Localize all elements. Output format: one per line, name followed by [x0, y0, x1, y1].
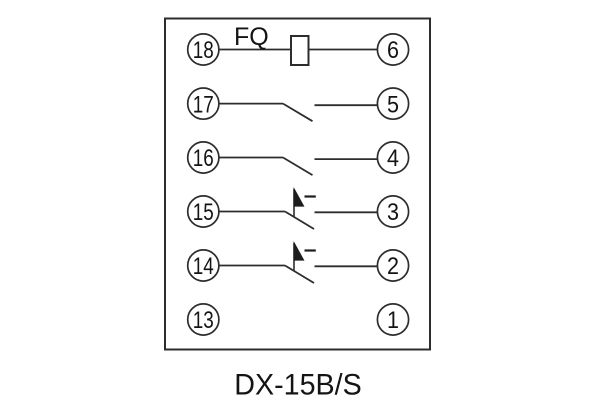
terminal 5	[377, 88, 408, 119]
svg-text:1: 1	[387, 307, 399, 334]
svg-text:17: 17	[193, 91, 214, 118]
wire coil FQ to 6	[309, 49, 378, 51]
terminal 14	[188, 250, 219, 281]
terminal 1	[377, 304, 408, 335]
terminal 15	[188, 196, 219, 227]
svg-text:2: 2	[387, 253, 399, 280]
terminal 3	[377, 196, 408, 227]
dash mark of contact 14-2	[305, 249, 316, 251]
flag pole of contact 14-2	[293, 243, 295, 271]
svg-text:18: 18	[193, 37, 214, 64]
wire 18 to coil FQ	[219, 49, 291, 51]
svg-text:13: 13	[193, 307, 214, 334]
svg-text:16: 16	[193, 145, 214, 172]
svg-text:DX-15B/S: DX-15B/S	[234, 369, 362, 400]
contact blade 15-3	[285, 212, 314, 230]
wire 15 to contact	[219, 211, 285, 213]
svg-text:15: 15	[193, 199, 214, 226]
wire 14 to contact	[219, 265, 285, 267]
wire fixed contact to 2	[315, 265, 378, 267]
wire 17 to contact	[219, 103, 283, 105]
flag pole of contact 15-3	[293, 189, 295, 217]
svg-text:FQ: FQ	[234, 23, 269, 51]
coil FQ	[291, 36, 309, 65]
wire fixed contact to 3	[315, 211, 378, 213]
svg-text:3: 3	[387, 199, 399, 226]
svg-text:4: 4	[387, 145, 399, 172]
terminal 18	[188, 34, 219, 65]
wire 16 to contact	[219, 157, 283, 159]
contact blade 14-2	[285, 266, 314, 284]
terminal 13	[188, 304, 219, 335]
signal flag of contact 14-2	[294, 243, 304, 261]
relay case outline	[165, 19, 430, 350]
terminal 2	[377, 250, 408, 281]
terminal 6	[377, 34, 408, 65]
dash mark of contact 15-3	[305, 195, 316, 197]
svg-text:6: 6	[387, 37, 399, 64]
terminal 17	[188, 88, 219, 119]
terminal 4	[377, 142, 408, 173]
contact blade 17-5	[283, 104, 313, 122]
svg-text:14: 14	[193, 253, 214, 280]
svg-text:5: 5	[387, 91, 399, 118]
contact blade 16-4	[283, 158, 313, 176]
signal flag of contact 15-3	[294, 189, 304, 207]
terminal 16	[188, 142, 219, 173]
wire fixed contact to 5	[315, 104, 378, 106]
wire fixed contact to 4	[315, 158, 378, 160]
